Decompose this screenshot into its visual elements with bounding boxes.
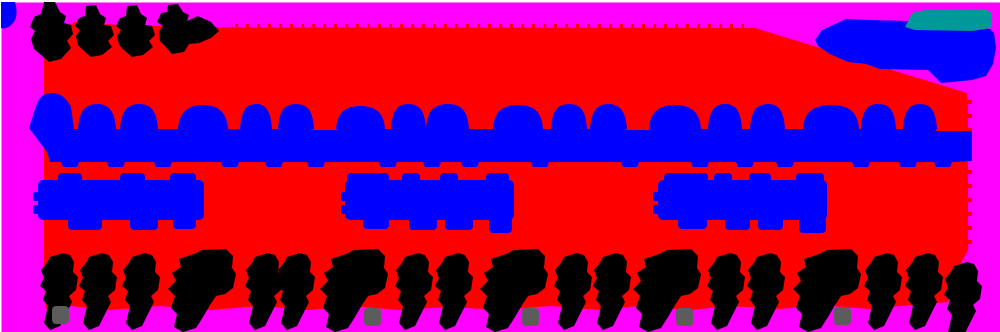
black script glyph s5 — [277, 253, 315, 330]
black script glyph wide w2 — [320, 249, 388, 332]
black script glyph wide w1 — [168, 249, 236, 332]
red edge ticks — [235, 24, 972, 244]
black script glyph s6 — [395, 253, 433, 330]
black script glyph s13 — [905, 253, 943, 330]
black script glyph s-last — [944, 262, 982, 332]
black script glyph wide w4 — [633, 249, 701, 332]
black script glyph wide w3 — [480, 249, 548, 332]
blue logo blob top-right — [815, 19, 996, 83]
black script glyph s8 — [554, 253, 592, 330]
blue corner blob top-left — [1, 2, 17, 28]
black script glyph s9 — [593, 253, 631, 330]
blue headline band — [29, 93, 972, 167]
black script glyph s1 — [40, 253, 78, 330]
gray spot g4 — [676, 308, 693, 326]
black script glyph wide w5 — [793, 249, 861, 332]
gray spot g3 — [522, 308, 539, 326]
black script glyph s12 — [864, 253, 902, 330]
black script glyph s3 — [122, 253, 160, 330]
word blob C — [658, 180, 827, 220]
black script glyph s11 — [747, 253, 785, 330]
word blob B — [345, 180, 514, 220]
gray spot g1 — [52, 306, 69, 324]
black brush glyph 4 — [157, 4, 219, 54]
gray spot g2 — [364, 308, 381, 326]
teal button — [905, 9, 992, 31]
black brush glyph 1 — [30, 2, 73, 62]
black brush glyph 3 — [116, 5, 155, 57]
black script glyph s10 — [707, 253, 745, 330]
black script glyph s4 — [245, 253, 283, 330]
black script glyph s2 — [79, 253, 117, 330]
black script glyph s7 — [435, 253, 473, 330]
black brush glyph 2 — [75, 5, 114, 57]
word blob A — [38, 180, 204, 220]
gray spot g5 — [834, 307, 851, 325]
